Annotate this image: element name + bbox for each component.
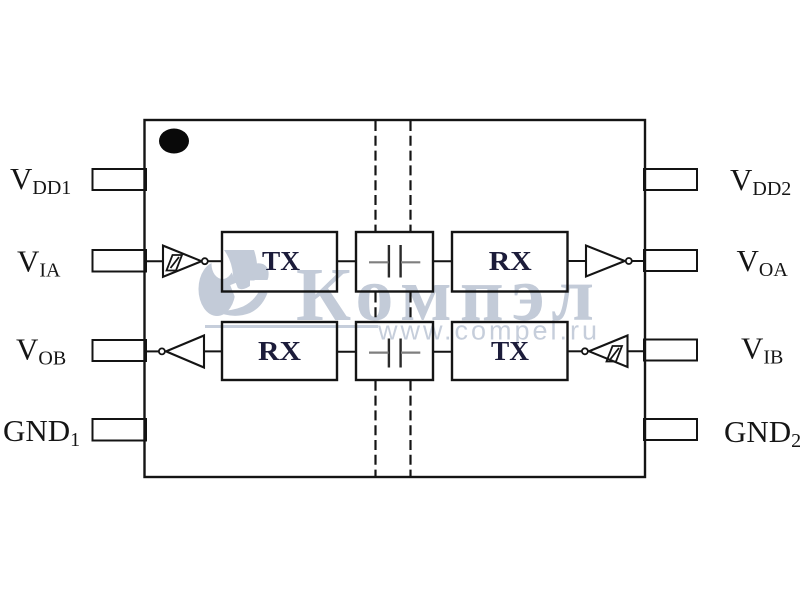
- pin VDD1: [93, 169, 147, 190]
- wire channel B: [146, 350, 644, 353]
- svg-text:GND1: GND1: [3, 413, 80, 451]
- capacitor block B: [356, 322, 433, 380]
- svg-text:RX: RX: [489, 246, 532, 277]
- wire channel A: [146, 260, 645, 262]
- svg-text:GND2: GND2: [724, 414, 800, 452]
- IC body: [145, 120, 646, 477]
- block TX channel A: [222, 232, 337, 292]
- capacitor B symbol: [389, 339, 401, 368]
- buffer U3 output B (left): [166, 336, 204, 368]
- bubble A-out: [626, 258, 632, 264]
- pin GND1: [93, 419, 147, 441]
- buffer U4 input B (schmitt, points left): [589, 336, 628, 368]
- pin VDD2: [644, 169, 697, 190]
- block RX channel B: [222, 322, 337, 380]
- pin VOB: [93, 340, 147, 361]
- svg-text:RX: RX: [258, 336, 301, 367]
- schmitt symbol A: [167, 255, 183, 271]
- capacitor block A: [356, 232, 433, 292]
- bubble A-in: [202, 258, 208, 264]
- pin VOA: [644, 250, 697, 271]
- bubble B-out: [159, 348, 165, 354]
- bubble B-in: [582, 348, 588, 354]
- pin GND2: [644, 419, 697, 440]
- block TX channel B: [452, 322, 568, 380]
- schmitt symbol B: [607, 346, 623, 362]
- pin VIB: [644, 340, 697, 361]
- buffer U2 output A: [586, 246, 625, 277]
- block RX channel A: [452, 232, 568, 292]
- svg-text:TX: TX: [491, 336, 529, 367]
- isolation barrier dashed line right: [409, 121, 411, 476]
- watermark logo compel: [199, 249, 270, 316]
- buffer U1 input A (schmitt): [163, 246, 202, 277]
- pin-1 dot: [159, 129, 189, 154]
- capacitor A symbol: [389, 245, 401, 278]
- pin VIA: [93, 250, 147, 272]
- isolation barrier dashed line left: [374, 121, 376, 476]
- svg-text:TX: TX: [262, 246, 300, 277]
